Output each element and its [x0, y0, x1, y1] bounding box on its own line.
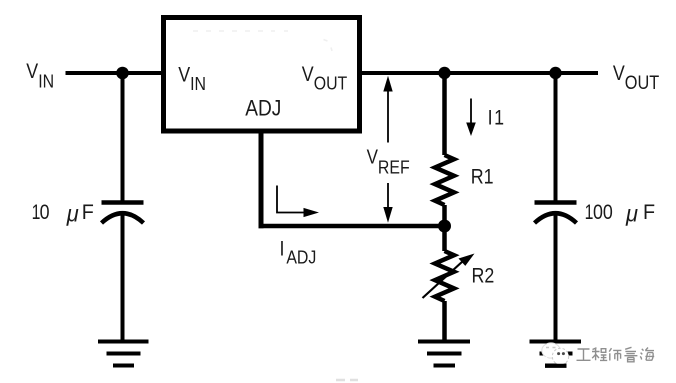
- ghost mark bottom: [336, 379, 358, 382]
- label IADJ: [280, 237, 317, 268]
- wire: rail down to C2: [554, 73, 558, 203]
- node junction dot at R1 top: [438, 67, 450, 79]
- wire: C1 to ground: [121, 214, 125, 340]
- capacitor C2 100uF: [535, 203, 577, 224]
- pin label VIN (inside box): [178, 63, 206, 94]
- label R1: [471, 165, 494, 189]
- ground (left): [98, 342, 149, 366]
- regulator U1 box: [164, 18, 360, 132]
- svg-text:ADJ: ADJ: [245, 96, 281, 121]
- node junction dot at input: [116, 67, 129, 80]
- svg-text:μ: μ: [625, 201, 638, 227]
- wire: ADJ horizontal to adj node: [259, 224, 445, 229]
- label VREF: [367, 145, 410, 178]
- current arrow I1: [466, 99, 476, 137]
- ground (right): [530, 342, 582, 366]
- ghost erased label inside box: [193, 31, 332, 51]
- node VOUT label (right): [613, 62, 659, 94]
- node junction dot at C2 top: [549, 67, 561, 79]
- watermark text 工程师看海 (drawn strokes): [577, 347, 655, 362]
- pin label ADJ (inside box): [245, 96, 281, 121]
- resistor R1: [435, 155, 454, 205]
- voltage arrow VREF (double headed): [383, 76, 392, 223]
- label I1: [488, 106, 506, 130]
- wire: VIN lead to box: [66, 71, 162, 75]
- svg-text:F: F: [643, 200, 655, 224]
- ground (middle): [418, 342, 470, 366]
- wire: C2 to ground: [554, 214, 558, 340]
- svg-text:R1: R1: [471, 165, 494, 189]
- svg-text:1: 1: [585, 200, 594, 224]
- wire: VOUT rail: [362, 71, 598, 75]
- svg-text:μ: μ: [66, 201, 79, 227]
- wire: R2 to ground: [442, 301, 447, 340]
- value label 10 uF: [32, 200, 41, 224]
- svg-text:00: 00: [593, 201, 613, 225]
- label R2: [472, 264, 495, 288]
- svg-text:F: F: [82, 200, 94, 224]
- svg-text:0: 0: [40, 201, 50, 225]
- svg-text:I1: I1: [488, 106, 506, 130]
- watermark logo: [542, 343, 569, 366]
- wire: ADJ pin down: [259, 131, 264, 228]
- node VIN label (left): [26, 60, 54, 92]
- svg-text:R2: R2: [472, 264, 495, 288]
- wire: adj node down to R2: [442, 226, 447, 251]
- node junction dot ADJ/R1/R2: [438, 220, 451, 233]
- potentiometer R2: [423, 251, 475, 301]
- pin label VOUT (inside box): [302, 63, 348, 94]
- current arrow IADJ (L-shaped): [277, 186, 319, 218]
- capacitor C1 10uF: [102, 203, 144, 224]
- value label 100 uF: [585, 200, 594, 224]
- wire: R1 to adj node: [442, 205, 447, 226]
- wire: input node down to C1: [121, 73, 125, 203]
- wire: rail down to R1: [442, 73, 447, 155]
